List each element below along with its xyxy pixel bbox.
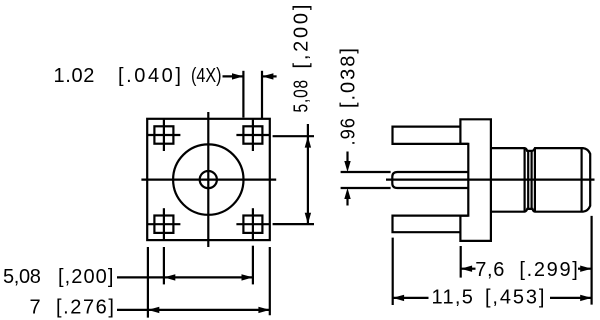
- side view top mounting leg: [393, 127, 469, 144]
- dim 7.6 arrow left-pointing: [461, 266, 472, 272]
- dim 5.08 bottom extension line left (pad center): [163, 247, 165, 284]
- dim .96 arrow down: [344, 161, 350, 172]
- dim 7 extension line right (square edge): [269, 247, 271, 315]
- dim 5.08 bottom arrow right-pointing: [242, 274, 253, 280]
- svg-text:7[.276]: 7[.276]: [30, 296, 116, 318]
- side view horizontal centerline: [386, 179, 595, 181]
- side view center pin extension line top: [341, 171, 391, 173]
- front view vertical centerline: [207, 112, 209, 247]
- dim .96 arrow up stem: [346, 198, 348, 206]
- svg-text:1.02[.040](4X): 1.02[.040](4X): [54, 65, 222, 87]
- side view body groove vertical 1: [523, 148, 525, 212]
- side view body groove vertical 2: [527, 151, 529, 209]
- svg-text:5,08[,200]: 5,08[,200]: [3, 266, 115, 288]
- svg-text:5,08[,200]: 5,08[,200]: [291, 4, 313, 113]
- svg-text:7,6[.299]: 7,6[.299]: [475, 259, 579, 281]
- dim 5.08 bottom arrow left-pointing: [164, 274, 175, 280]
- dim 5.08 vertical arrow up: [305, 136, 311, 147]
- dim 11.5 arrow left-pointing: [393, 295, 404, 301]
- dim 7.6 arrow right-pointing: [580, 266, 591, 272]
- dim 5.08 bottom leader line: [117, 276, 253, 278]
- dim 5.08 bottom extension line right (pad center): [252, 246, 254, 285]
- side view body groove vertical 4: [534, 148, 536, 212]
- side view flange outline: [460, 119, 491, 241]
- dim .96 arrow up: [344, 188, 350, 199]
- mounting post top-left crosslines: [163, 119, 165, 151]
- dim 1.02 extension line right: [261, 71, 263, 120]
- dim 11.5 arrow right-pointing: [580, 295, 591, 301]
- dim 1.02 leader line: [223, 75, 244, 77]
- dim 7.6 dimension line left segment: [461, 268, 476, 270]
- mounting post bottom-right square: [243, 216, 262, 233]
- side view body outline: [491, 148, 590, 212]
- side view center pin extension line bottom: [341, 187, 391, 189]
- dim 5.08 vertical arrow down: [305, 213, 311, 224]
- dim 11.5 dimension line right segment: [550, 297, 592, 299]
- dim 7 extension line left (square edge): [147, 247, 149, 318]
- side view body groove vertical 3: [530, 151, 532, 209]
- svg-text:.96[.038]: .96[.038]: [338, 47, 360, 146]
- dim 7 leader line: [117, 309, 270, 311]
- mounting post top-right square: [243, 126, 262, 143]
- dim 7.6 extension line right (body tip): [590, 216, 592, 305]
- dim 5.08 vertical dimension line: [307, 124, 309, 224]
- front view flange plate outline: [147, 119, 270, 240]
- mounting post bottom-left square: [154, 216, 173, 233]
- dim 1.02 arrow left-pointing: [262, 73, 273, 79]
- dim 7 arrow left-pointing: [148, 307, 159, 313]
- svg-text:11,5[,453]: 11,5[,453]: [432, 287, 546, 309]
- dim 7.6 dimension line right segment: [578, 268, 592, 270]
- dim 5.08 vertical extension line top: [273, 135, 314, 137]
- dim 7 arrow right-pointing: [258, 307, 269, 313]
- front view horizontal centerline: [141, 179, 276, 181]
- dim 5.08 vertical extension line bottom: [273, 223, 314, 225]
- dim 1.02 right segment: [262, 75, 277, 77]
- dim 1.02 arrow right-pointing: [232, 73, 243, 79]
- mounting post bottom-left crosslines: [163, 208, 165, 240]
- dim .96 arrow down stem: [346, 152, 348, 163]
- dim 1.02 extension line left: [242, 71, 244, 118]
- front view center contact circle: [200, 171, 217, 188]
- side view center pin: [392, 172, 468, 188]
- front view connector body circle: [173, 144, 243, 214]
- mounting post bottom-right crosslines: [252, 208, 254, 240]
- mounting post top-left square: [154, 126, 173, 143]
- dim 7.6 extension line left (flange face): [460, 246, 462, 278]
- dim 11.5 dimension line left segment: [393, 297, 429, 299]
- side view body end face line: [580, 148, 582, 212]
- dim 11.5 extension line left (leg end): [392, 238, 394, 305]
- mounting post top-right crosslines: [252, 119, 254, 151]
- side view bottom mounting leg: [393, 216, 469, 233]
